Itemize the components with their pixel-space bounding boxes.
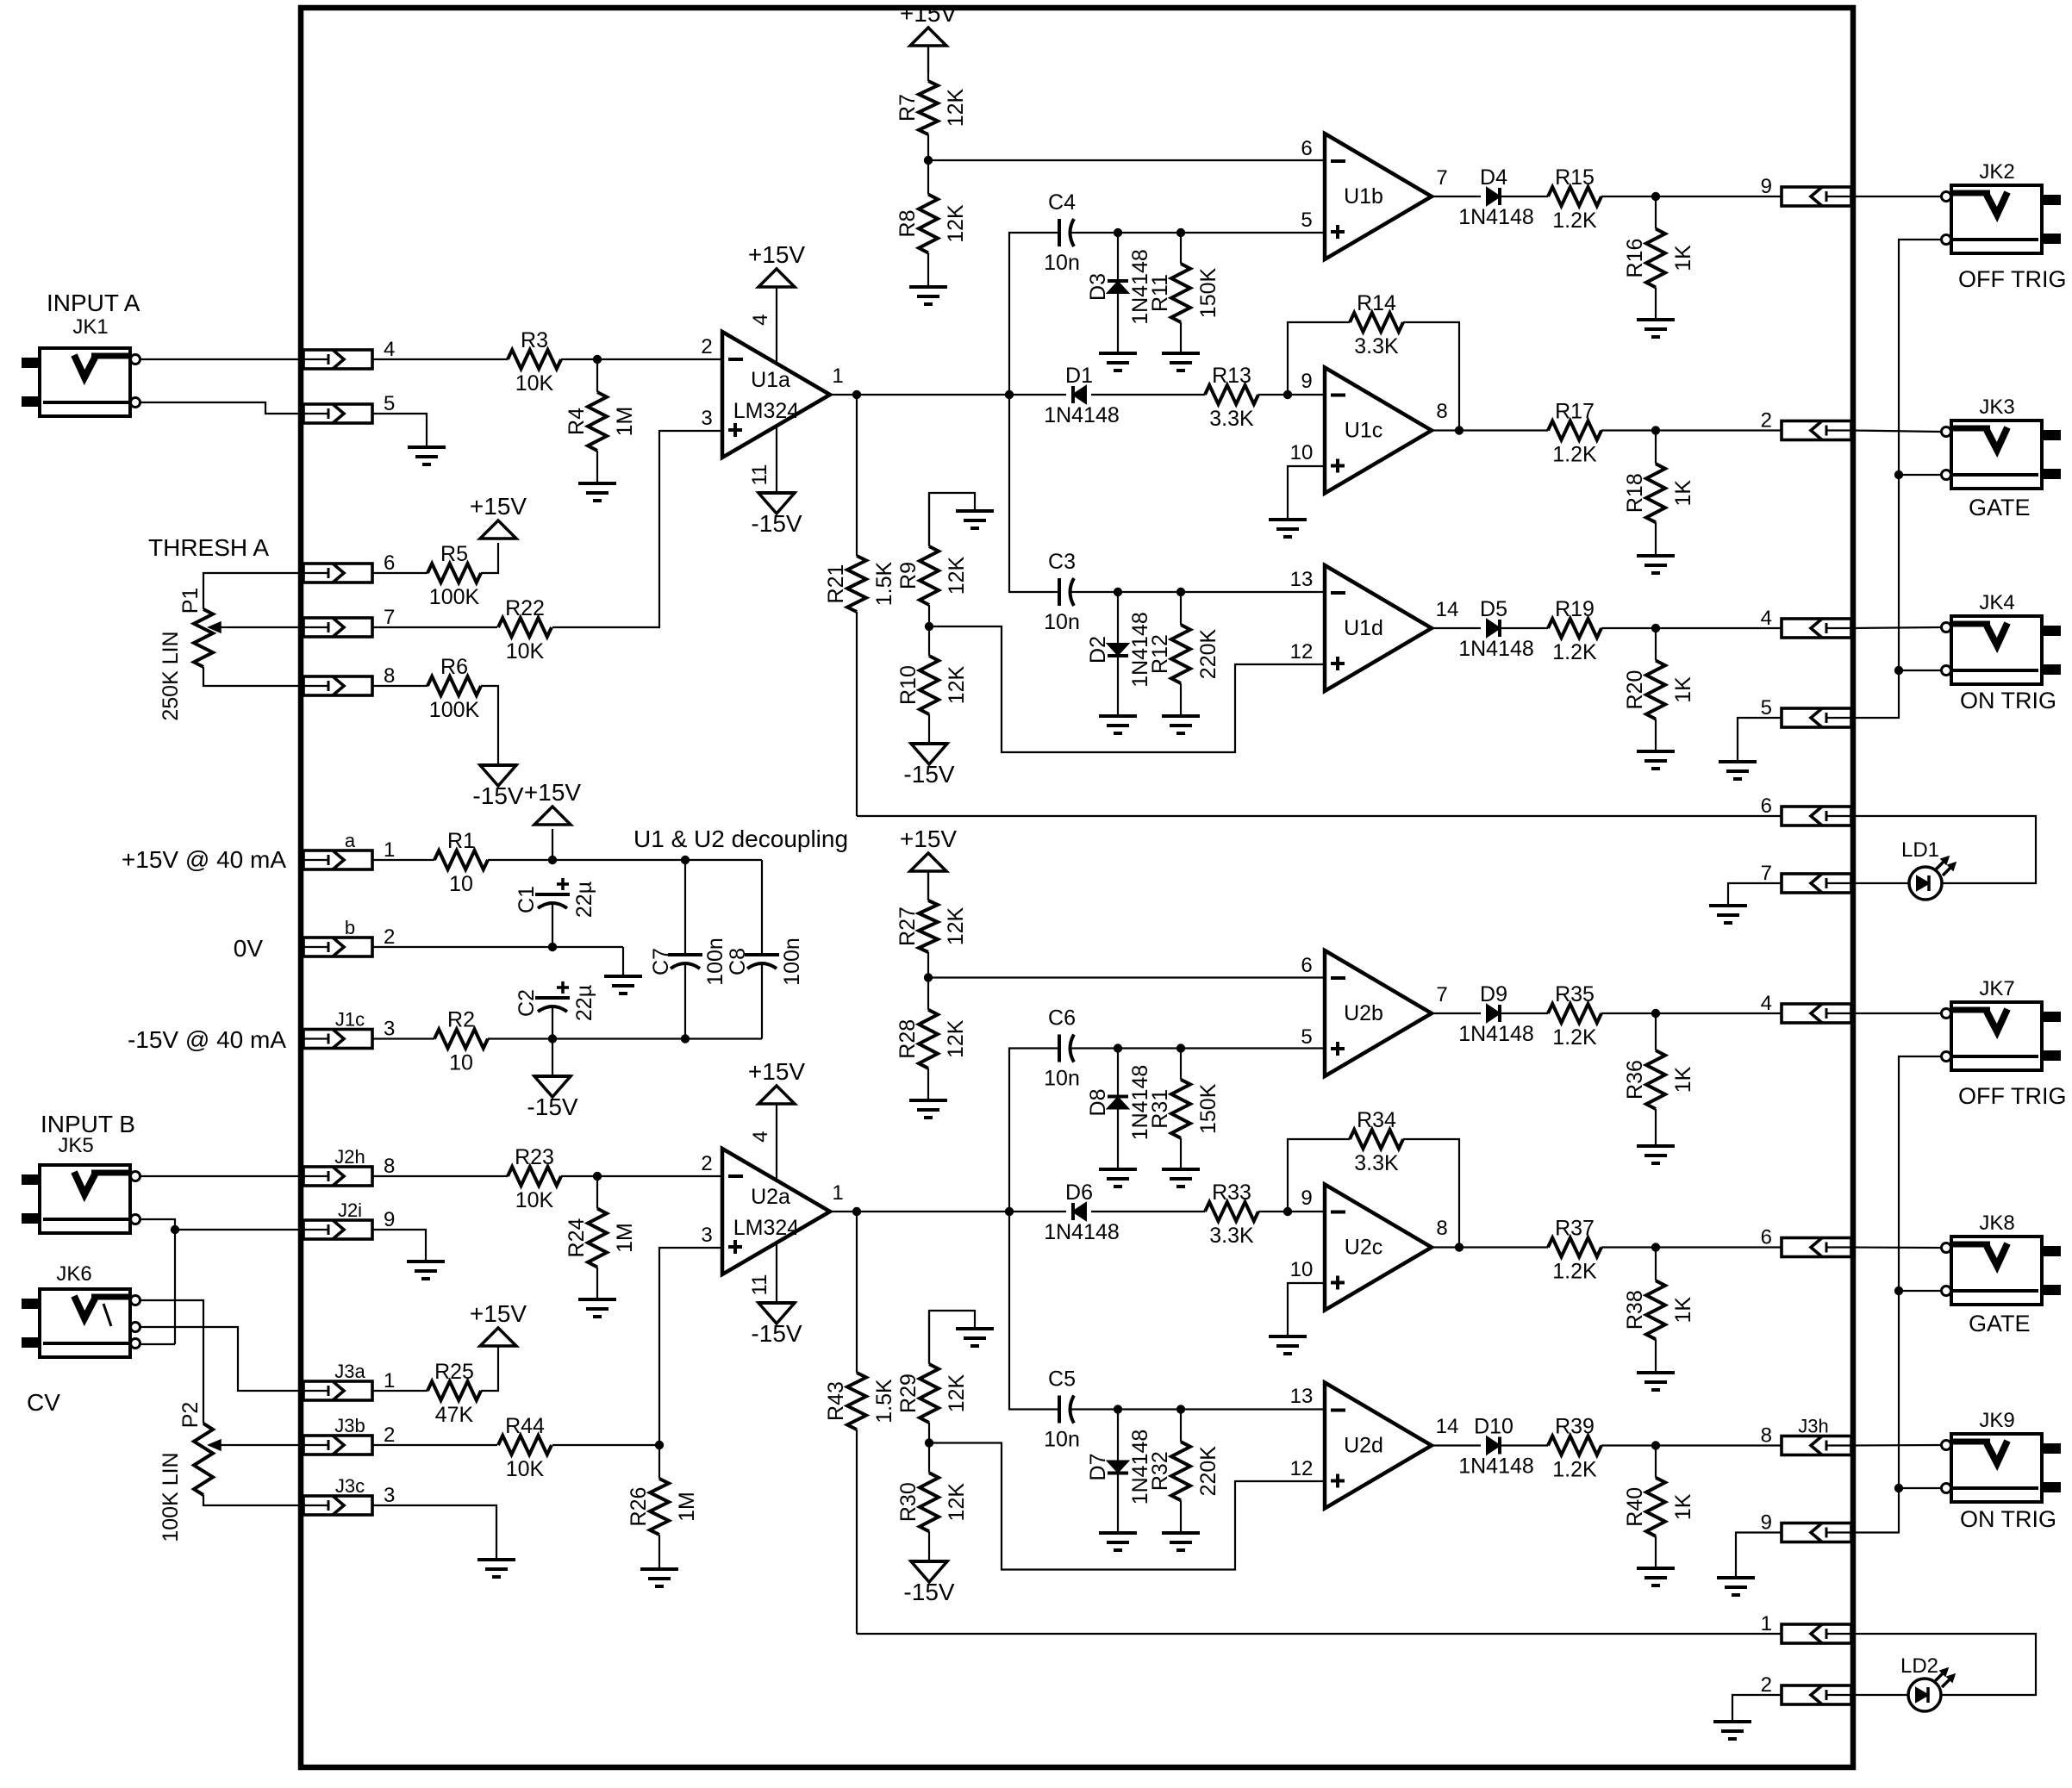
svg-text:R28: R28 [896, 1019, 920, 1059]
svg-text:5: 5 [384, 392, 395, 415]
resistor R32 [1148, 1410, 1220, 1534]
power +15V [524, 779, 581, 825]
svg-text:6: 6 [384, 551, 395, 575]
svg-text:R11: R11 [1148, 274, 1172, 312]
svg-text:12K: 12K [945, 1483, 969, 1522]
svg-text:3: 3 [701, 1224, 712, 1247]
svg-text:8: 8 [384, 1155, 395, 1178]
svg-text:22µ: 22µ [572, 882, 596, 918]
svg-text:-15V: -15V [527, 1093, 577, 1120]
svg-text:+15V: +15V [900, 825, 957, 852]
wire [372, 1175, 508, 1177]
svg-text:U1 & U2 decoupling: U1 & U2 decoupling [633, 825, 848, 852]
junction [1651, 1441, 1660, 1449]
svg-text:-15V: -15V [903, 1579, 954, 1605]
svg-text:LM324: LM324 [733, 399, 800, 423]
resistor R43 [824, 1212, 896, 1634]
svg-text:D5: D5 [1480, 597, 1507, 621]
svg-text:1.2K: 1.2K [1552, 1260, 1597, 1284]
junction [925, 1438, 933, 1447]
op-amp U1d [1325, 565, 1432, 691]
svg-text:R6: R6 [440, 655, 468, 679]
ground [1637, 1146, 1675, 1163]
svg-text:R14: R14 [1357, 291, 1396, 315]
svg-text:R34: R34 [1357, 1108, 1396, 1132]
svg-text:R44: R44 [505, 1414, 545, 1438]
svg-text:12K: 12K [945, 665, 969, 704]
wire [1899, 1290, 1941, 1292]
svg-text:10: 10 [449, 872, 473, 896]
wire [929, 493, 975, 546]
svg-text:J2h: J2h [334, 1146, 365, 1168]
wire C7 riser [684, 860, 686, 955]
resistor R31 [1148, 1049, 1220, 1170]
svg-text:D8: D8 [1086, 1089, 1110, 1117]
svg-text:C7: C7 [649, 948, 673, 975]
svg-text:9: 9 [1301, 1187, 1312, 1210]
junction [1651, 624, 1660, 632]
jack JK7 [1942, 977, 2062, 1070]
ground [1269, 520, 1307, 537]
wire [1076, 591, 1325, 593]
svg-text:100n: 100n [780, 938, 804, 986]
resistor R4 [565, 359, 637, 483]
op-amp U2c [1325, 1185, 1432, 1311]
svg-text:+15V: +15V [748, 241, 805, 268]
op-amp U1b [1325, 134, 1432, 259]
wire [1403, 322, 1459, 431]
svg-text:2: 2 [1761, 409, 1772, 433]
svg-text:250K LIN: 250K LIN [159, 631, 183, 720]
ground [1719, 762, 1757, 779]
sleeve bus [1851, 240, 1941, 718]
wire [1500, 1444, 1548, 1446]
resistor R34 [1350, 1108, 1403, 1175]
svg-text:3: 3 [701, 407, 712, 430]
wire [1601, 1444, 1782, 1446]
junction [1176, 228, 1185, 237]
wire [140, 1327, 303, 1391]
wire [561, 1175, 722, 1177]
wire [1288, 466, 1325, 520]
wire [761, 966, 763, 1039]
wire [552, 431, 722, 627]
svg-text:10K: 10K [515, 371, 554, 396]
svg-text:C5: C5 [1048, 1367, 1076, 1392]
svg-text:D10: D10 [1474, 1415, 1513, 1439]
svg-text:R32: R32 [1148, 1451, 1172, 1491]
svg-text:R12: R12 [1148, 634, 1172, 674]
junction [171, 1225, 179, 1234]
wire [776, 426, 777, 493]
resistor R35 [1548, 982, 1601, 1050]
ground [1099, 353, 1137, 371]
junction [1176, 588, 1185, 596]
ground [1162, 353, 1200, 371]
svg-text:6: 6 [1761, 1226, 1772, 1249]
svg-text:R27: R27 [896, 906, 920, 946]
LED LD1 [1901, 838, 1956, 900]
svg-text:GATE: GATE [1969, 1311, 2031, 1336]
svg-text:7: 7 [384, 606, 395, 629]
svg-text:P2: P2 [178, 1402, 203, 1429]
junction [1283, 390, 1292, 399]
wire [372, 414, 427, 447]
svg-text:LD2: LD2 [1900, 1654, 1938, 1678]
svg-text:10n: 10n [1044, 610, 1080, 634]
svg-text:JK2: JK2 [1979, 160, 2014, 184]
wire [1851, 431, 1941, 433]
svg-text:12K: 12K [945, 556, 969, 595]
wire [1851, 627, 1941, 628]
ground [1099, 1533, 1137, 1550]
connector pin 8 J3h [1761, 1416, 1851, 1455]
svg-text:10n: 10n [1044, 1428, 1080, 1452]
resistor R21 [824, 395, 896, 816]
svg-text:100K: 100K [429, 698, 480, 722]
svg-text:4: 4 [749, 1131, 772, 1142]
svg-text:+15V: +15V [900, 0, 957, 27]
svg-text:1.2K: 1.2K [1552, 209, 1597, 233]
svg-text:R18: R18 [1623, 473, 1647, 513]
svg-text:-15V: -15V [903, 761, 954, 788]
svg-text:12K: 12K [944, 204, 968, 243]
wire [229, 1444, 303, 1446]
svg-text:4: 4 [1761, 992, 1772, 1015]
jack JK4 [1942, 591, 2062, 684]
diode D8 [1086, 1049, 1152, 1170]
svg-text:1N4148: 1N4148 [1044, 1220, 1120, 1244]
svg-text:R3: R3 [521, 328, 548, 352]
svg-text:8: 8 [1436, 1217, 1447, 1240]
junction [548, 856, 557, 864]
wire [1899, 670, 1941, 671]
resistor R19 [1548, 597, 1601, 664]
svg-text:4: 4 [749, 314, 772, 325]
svg-text:1.5K: 1.5K [872, 1379, 896, 1424]
svg-text:-15V: -15V [472, 782, 523, 809]
svg-text:JK5: JK5 [58, 1134, 93, 1157]
ground [1717, 1578, 1755, 1595]
svg-text:1K: 1K [1671, 1066, 1695, 1093]
svg-text:6: 6 [1301, 954, 1312, 977]
diode D5 [1458, 597, 1534, 661]
svg-text:12K: 12K [944, 1019, 968, 1058]
resistor R12 [1148, 592, 1220, 716]
svg-text:R29: R29 [896, 1374, 921, 1413]
svg-text:1: 1 [384, 1369, 395, 1392]
svg-text:3.3K: 3.3K [1354, 334, 1399, 358]
resistor R14 [1350, 291, 1403, 358]
wire [830, 394, 1066, 396]
wire C8 riser [761, 860, 763, 955]
op-amp U2b [1325, 950, 1432, 1076]
wire [1258, 394, 1325, 396]
power +15V [748, 241, 805, 287]
wire [1601, 429, 1782, 431]
capacitor C2 [515, 981, 596, 1021]
svg-text:1K: 1K [1671, 480, 1695, 507]
wire [140, 1219, 303, 1230]
junction [1455, 426, 1464, 434]
wire [622, 947, 624, 976]
svg-text:R43: R43 [824, 1381, 848, 1421]
ground [1162, 1169, 1200, 1187]
junction [852, 390, 861, 399]
connector pin 9 J2i [303, 1199, 395, 1239]
resistor R17 [1548, 400, 1601, 467]
svg-text:R4: R4 [565, 408, 589, 435]
power +15V [748, 1058, 805, 1104]
svg-text:D3: D3 [1086, 273, 1110, 301]
svg-text:2: 2 [1761, 1673, 1772, 1697]
wire [552, 1011, 553, 1039]
connector pin 3 J1c [303, 1009, 395, 1049]
wire [1899, 474, 1941, 476]
wire [1851, 1694, 1908, 1696]
svg-text:100K: 100K [429, 585, 480, 609]
wire [1851, 1246, 1941, 1249]
diode D10 [1458, 1415, 1534, 1479]
wire [372, 1037, 434, 1039]
junction [924, 156, 933, 165]
wire [1601, 196, 1782, 197]
svg-text:3: 3 [384, 1018, 395, 1041]
junction [1894, 1286, 1903, 1295]
wire LED feed [1851, 1634, 2036, 1695]
svg-text:3.3K: 3.3K [1354, 1151, 1399, 1175]
svg-text:10n: 10n [1044, 1067, 1080, 1091]
wire [488, 859, 762, 861]
connector pin 9 [1761, 1511, 1851, 1542]
wire [203, 667, 303, 686]
svg-text:5: 5 [1301, 209, 1312, 232]
jack JK9 [1942, 1409, 2062, 1502]
PCB border [301, 8, 1853, 1767]
junction [924, 973, 933, 981]
svg-text:ON TRIG: ON TRIG [1960, 688, 2056, 713]
connector pin 7 [303, 606, 395, 637]
resistor R27 [896, 871, 968, 978]
junction [1114, 1044, 1122, 1052]
wire [372, 946, 623, 948]
resistor R33 [1205, 1181, 1258, 1248]
svg-text:3.3K: 3.3K [1209, 407, 1254, 431]
resistor R8 [896, 160, 968, 287]
junction [1455, 1243, 1464, 1251]
svg-text:9: 9 [1301, 370, 1312, 393]
svg-text:14: 14 [1436, 1415, 1459, 1438]
svg-text:INPUT A: INPUT A [47, 290, 140, 316]
svg-text:13: 13 [1290, 1385, 1314, 1408]
wire [929, 626, 1325, 752]
ground [1637, 320, 1675, 337]
power -15V [472, 765, 523, 809]
svg-text:J3h: J3h [1798, 1416, 1828, 1437]
power -15V [903, 1561, 954, 1605]
wire [684, 966, 686, 1039]
svg-text:9: 9 [1761, 175, 1772, 198]
wire [481, 543, 498, 573]
wire [929, 1311, 975, 1364]
svg-text:JK3: JK3 [1979, 396, 2014, 419]
svg-text:D9: D9 [1480, 982, 1507, 1006]
resistor R30 [896, 1443, 969, 1562]
ground [1099, 1169, 1137, 1187]
wire [372, 358, 508, 360]
svg-text:10K: 10K [515, 1188, 554, 1212]
diode D4 [1458, 165, 1534, 229]
junction [548, 943, 557, 951]
wire [1076, 1047, 1325, 1049]
svg-text:22µ: 22µ [572, 985, 596, 1021]
svg-text:LM324: LM324 [733, 1216, 800, 1240]
jack JK3 [1942, 396, 2062, 489]
wire LED feed [1851, 816, 2036, 883]
svg-text:C3: C3 [1048, 550, 1076, 574]
svg-text:1K: 1K [1671, 1493, 1695, 1520]
svg-text:OFF TRIG: OFF TRIG [1958, 266, 2067, 292]
svg-text:R26: R26 [627, 1487, 651, 1527]
ground [578, 1299, 616, 1317]
svg-text:1.2K: 1.2K [1552, 640, 1597, 664]
junction [681, 1034, 690, 1043]
svg-text:J3c: J3c [335, 1475, 365, 1497]
wire [372, 1390, 428, 1392]
connector pin 5 [303, 392, 395, 423]
svg-text:P1: P1 [178, 588, 203, 614]
diode D3 [1086, 233, 1152, 353]
connector pin 9 [1761, 175, 1851, 206]
capacitor C1 [515, 878, 596, 918]
svg-text:10K: 10K [506, 1457, 545, 1481]
svg-text:100K LIN: 100K LIN [159, 1452, 183, 1542]
wire [1851, 196, 1941, 197]
svg-text:5: 5 [1301, 1025, 1312, 1049]
svg-text:8: 8 [1436, 400, 1447, 423]
svg-text:THRESH A: THRESH A [148, 534, 269, 561]
svg-text:U2a: U2a [751, 1185, 790, 1209]
wire [929, 1443, 1325, 1570]
wire [857, 815, 1782, 817]
junction [1005, 390, 1014, 399]
svg-text:R20: R20 [1623, 670, 1647, 710]
wire [1432, 196, 1481, 197]
wire [1091, 1211, 1205, 1212]
svg-text:7: 7 [1436, 166, 1447, 190]
wire [776, 287, 777, 363]
svg-text:12: 12 [1290, 1457, 1314, 1480]
wire [1432, 1246, 1548, 1248]
svg-text:R19: R19 [1555, 597, 1595, 621]
svg-text:10K: 10K [506, 639, 545, 663]
wire [776, 1243, 777, 1303]
resistor R6 [428, 655, 481, 722]
junction [1005, 1207, 1014, 1216]
svg-text:2: 2 [384, 1424, 395, 1447]
svg-text:LD1: LD1 [1901, 838, 1939, 862]
connector pin 2 [1761, 1673, 1851, 1704]
power -15V [751, 493, 802, 537]
resistor R23 [508, 1145, 561, 1212]
connector pin 2 b [303, 917, 395, 956]
svg-text:U1d: U1d [1344, 616, 1383, 640]
resistor R28 [896, 978, 968, 1101]
wire [928, 976, 1325, 978]
junction [1894, 470, 1903, 479]
svg-text:10: 10 [1290, 441, 1314, 464]
svg-text:4: 4 [384, 338, 395, 361]
svg-text:-15V: -15V [751, 510, 802, 537]
wire [1500, 1012, 1548, 1014]
svg-text:J3b: J3b [334, 1415, 365, 1436]
capacitor C3 [1044, 550, 1080, 634]
svg-text:R10: R10 [896, 665, 921, 705]
potentiometer P2 [159, 1402, 229, 1542]
wire [1009, 233, 1059, 395]
wire [203, 573, 303, 609]
resistor R18 [1623, 431, 1695, 557]
svg-text:5: 5 [1761, 696, 1772, 720]
svg-text:D7: D7 [1086, 1454, 1110, 1481]
resistor R24 [565, 1176, 637, 1299]
wire [1009, 1212, 1059, 1410]
svg-text:R39: R39 [1555, 1415, 1595, 1439]
jack JK1 [22, 348, 140, 416]
svg-text:R5: R5 [440, 542, 468, 566]
wire [1403, 1139, 1459, 1248]
connector pin 6 [303, 551, 395, 583]
svg-text:12K: 12K [945, 1374, 969, 1412]
svg-text:D1: D1 [1065, 364, 1093, 388]
resistor R9 [896, 493, 969, 626]
svg-text:J1c: J1c [335, 1009, 365, 1031]
wire [203, 1495, 303, 1505]
resistor R3 [508, 328, 561, 396]
junction [1651, 192, 1660, 201]
ground [640, 1569, 678, 1586]
svg-text:9: 9 [1761, 1511, 1772, 1535]
power -15V [903, 744, 954, 788]
wire [372, 1230, 426, 1262]
junction [1114, 588, 1122, 596]
svg-text:R15: R15 [1555, 165, 1595, 190]
ground [909, 1100, 947, 1118]
connector pin 4 [1761, 992, 1851, 1023]
junction [1894, 1484, 1903, 1492]
power +15V [470, 493, 527, 539]
ground [956, 1329, 994, 1346]
wire [1432, 1444, 1481, 1446]
ground [1637, 556, 1675, 573]
connector pin 1 J3a [303, 1361, 395, 1400]
svg-text:1N4148: 1N4148 [1044, 403, 1120, 427]
wire [1601, 1012, 1782, 1014]
svg-text:U1b: U1b [1344, 184, 1383, 209]
svg-text:12: 12 [1290, 640, 1314, 663]
wire [1288, 1283, 1325, 1336]
wire [1738, 718, 1782, 762]
capacitor C6 [1044, 1006, 1080, 1091]
wire [1500, 196, 1548, 197]
resistor R2 [434, 1008, 488, 1075]
wire [776, 1104, 777, 1180]
svg-text:1K: 1K [1671, 1297, 1695, 1324]
resistor R15 [1548, 165, 1601, 233]
svg-text:-15V @ 40 mA: -15V @ 40 mA [128, 1026, 286, 1053]
svg-text:J3a: J3a [334, 1361, 365, 1382]
svg-text:4: 4 [1761, 607, 1772, 630]
